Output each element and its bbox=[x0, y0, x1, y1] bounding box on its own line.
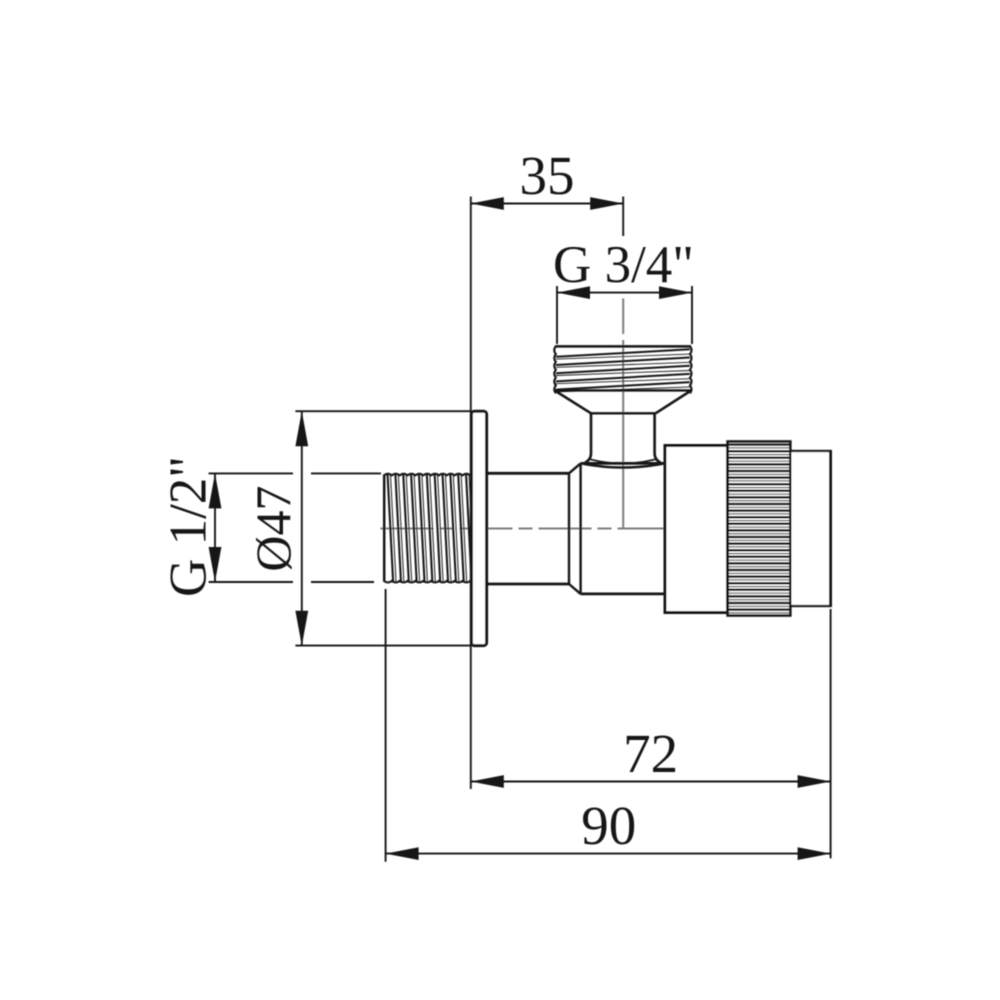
body middle section bbox=[581, 463, 665, 594]
svg-text:35: 35 bbox=[520, 145, 575, 206]
svg-text:72: 72 bbox=[623, 723, 678, 784]
centerline vertical outlet axis bbox=[622, 299, 624, 529]
flange disc bbox=[471, 411, 486, 645]
dimension 90 bbox=[386, 795, 831, 860]
pipe thread G3/4 top bbox=[554, 346, 691, 393]
svg-text:G 3/4": G 3/4" bbox=[553, 236, 694, 294]
body left section bbox=[487, 473, 569, 584]
svg-text:G 1/2": G 1/2" bbox=[160, 456, 218, 597]
extension line left (35/72) bbox=[470, 197, 472, 790]
dimension G3/4 bbox=[553, 236, 694, 299]
dimension 72 bbox=[471, 723, 831, 788]
dimension 35 bbox=[471, 145, 623, 210]
handle end cap bbox=[790, 450, 830, 607]
dimension D47 bbox=[245, 411, 308, 646]
knurled handle bbox=[728, 442, 791, 616]
svg-text:90: 90 bbox=[581, 795, 636, 856]
svg-text:Ø47: Ø47 bbox=[245, 486, 301, 572]
extension lines D47 bbox=[295, 411, 470, 645]
pipe thread G1/2 left bbox=[384, 474, 475, 583]
extension lines G3/4 bbox=[557, 286, 692, 344]
dimension G1/2 bbox=[160, 456, 222, 597]
extension line right (72/90) bbox=[830, 609, 832, 858]
outlet neck bbox=[585, 413, 661, 463]
extension line 90 left bbox=[385, 589, 387, 862]
body step taper bbox=[569, 463, 581, 594]
outlet cone bbox=[555, 390, 692, 413]
extension line 35 right bbox=[622, 197, 624, 237]
valve bonnet bbox=[665, 446, 728, 613]
extension lines G1/2 bbox=[209, 473, 381, 582]
centerline horizontal axis bbox=[381, 528, 831, 530]
